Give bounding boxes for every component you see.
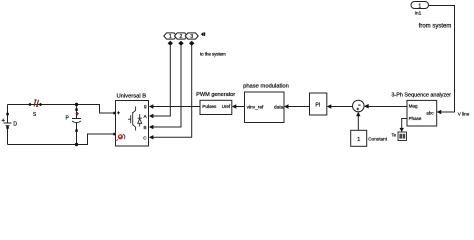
svg-text:Uref: Uref xyxy=(222,104,231,109)
svg-text:Universal B: Universal B xyxy=(116,94,146,100)
svg-text:PWM generator: PWM generator xyxy=(196,92,235,98)
svg-text:Constant: Constant xyxy=(368,136,387,141)
svg-text:1: 1 xyxy=(418,3,421,9)
svg-text:3: 3 xyxy=(190,34,193,40)
svg-text:D: D xyxy=(13,122,17,128)
svg-text:Pulses: Pulses xyxy=(202,104,217,109)
svg-text:PI: PI xyxy=(315,103,320,109)
svg-text:V line: V line xyxy=(458,112,470,117)
svg-text:vinv_ref: vinv_ref xyxy=(247,104,264,110)
svg-text:to the system: to the system xyxy=(200,51,226,56)
svg-text:g: g xyxy=(144,104,147,109)
svg-text:3-Ph Sequence analyzer: 3-Ph Sequence analyzer xyxy=(391,92,451,98)
svg-text:phase modulation: phase modulation xyxy=(243,84,289,90)
svg-text:B: B xyxy=(144,125,147,130)
svg-text:Te: Te xyxy=(392,133,397,138)
svg-text:In1: In1 xyxy=(415,11,422,17)
svg-text:data: data xyxy=(274,104,284,110)
svg-text:1: 1 xyxy=(169,34,172,40)
svg-text:abc: abc xyxy=(426,111,434,116)
svg-text:Phase: Phase xyxy=(409,116,422,121)
svg-text:1: 1 xyxy=(357,137,360,143)
svg-text:from system: from system xyxy=(419,23,452,29)
svg-text:Mag: Mag xyxy=(409,103,418,108)
svg-text:2: 2 xyxy=(180,34,183,40)
